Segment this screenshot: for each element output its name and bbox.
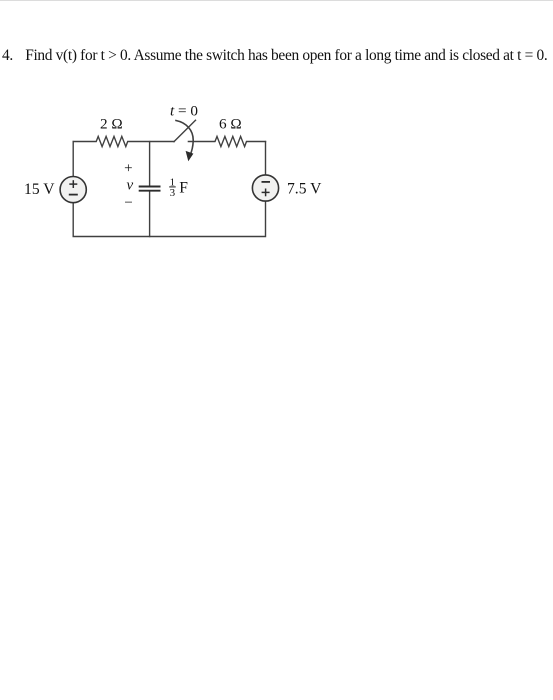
- svg-text:6 Ω: 6 Ω: [219, 116, 242, 133]
- svg-text:−: −: [124, 195, 132, 211]
- svg-text:F: F: [179, 180, 188, 197]
- svg-text:v: v: [126, 178, 133, 194]
- svg-text:+: +: [124, 161, 132, 177]
- svg-text:3: 3: [170, 187, 176, 199]
- svg-text:2 Ω: 2 Ω: [100, 116, 123, 133]
- svg-text:7.5 V: 7.5 V: [287, 181, 322, 198]
- svg-text:t = 0: t = 0: [170, 103, 198, 120]
- svg-text:15 V: 15 V: [24, 181, 55, 198]
